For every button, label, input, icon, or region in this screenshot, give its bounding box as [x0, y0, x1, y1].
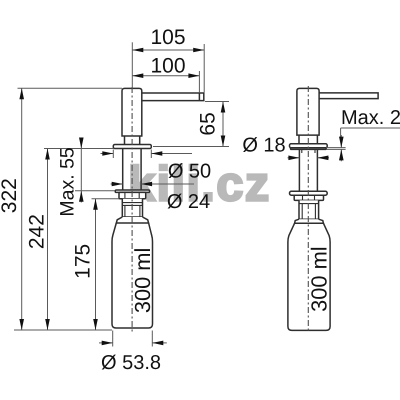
arrow max2 down	[339, 137, 344, 148]
dim dia538 left	[99, 342, 113, 344]
arrow dia538 right	[152, 341, 163, 346]
right washer	[290, 191, 328, 195]
dim max2 up	[340, 149, 342, 161]
right nut facets	[303, 195, 315, 200]
arrow max2 up	[339, 149, 344, 160]
leader max2 top	[341, 128, 400, 137]
svg-text:322: 322	[0, 178, 21, 213]
right centerline	[307, 86, 309, 333]
leader washer top left	[75, 190, 115, 192]
dim line 242	[47, 149, 49, 331]
right bottle	[288, 223, 330, 330]
arrow 105 left	[132, 48, 143, 53]
leader dia24 left	[111, 183, 123, 185]
arrow 175 top	[93, 199, 98, 210]
leader spout bottom	[205, 101, 229, 103]
left adapter	[122, 199, 142, 217]
left cap rim	[116, 217, 148, 223]
arrow 322 bottom	[19, 319, 24, 330]
leader flange bottom left	[44, 148, 113, 150]
svg-text:175: 175	[72, 244, 95, 279]
ext flange corners	[113, 150, 151, 159]
ext dia538	[113, 331, 153, 347]
left washer	[115, 190, 149, 192]
arrow dia18 left	[288, 156, 299, 161]
right shaft inner	[302, 149, 315, 153]
arrow 100 left	[132, 73, 143, 78]
right spout	[319, 93, 378, 99]
right flange	[290, 144, 328, 148]
leader bottle bottom	[14, 329, 112, 331]
arrow 242 top	[45, 149, 50, 160]
svg-text:Max. 2: Max. 2	[341, 107, 400, 129]
arrow dia538 left	[102, 341, 113, 346]
dim max2 down	[340, 135, 342, 148]
svg-text:300 ml: 300 ml	[130, 248, 155, 313]
svg-text:Ø 50: Ø 50	[168, 161, 211, 183]
dim dia538 right	[152, 342, 167, 344]
right head	[297, 88, 319, 135]
svg-text:Ø 18: Ø 18	[242, 135, 285, 157]
arrow 65 bottom	[221, 136, 226, 147]
leader dia50	[101, 153, 114, 155]
svg-text:300 ml: 300 ml	[307, 246, 332, 311]
arrow 105 right	[193, 48, 204, 53]
left neck	[125, 136, 140, 145]
leader dia50 right	[151, 153, 192, 155]
dim line 100	[132, 75, 199, 77]
arrow max55 top	[79, 138, 84, 149]
svg-text:Ø 53.8: Ø 53.8	[101, 352, 161, 374]
dim line max55	[80, 138, 82, 203]
arrow 242 bottom	[45, 319, 50, 330]
svg-text:100: 100	[150, 55, 185, 78]
leader head top left	[18, 87, 123, 89]
dim line 322	[21, 88, 23, 330]
arrow dia24 left	[112, 182, 123, 187]
ext line above left head	[131, 42, 133, 88]
ext line 100 right	[198, 71, 200, 92]
dim line 105	[132, 49, 204, 51]
arrow dia18 right	[317, 156, 328, 161]
leader gasket lines	[326, 148, 345, 150]
left spout joint	[198, 93, 200, 101]
left adapter inner	[122, 203, 142, 217]
left bottle	[112, 223, 153, 328]
right nut	[294, 195, 323, 200]
arrow 100 right	[188, 73, 199, 78]
svg-text:Ø 24: Ø 24	[167, 191, 210, 213]
left head	[122, 88, 142, 136]
arrow dia50 right	[151, 151, 162, 156]
leader dia18 left arrowtail	[288, 157, 300, 159]
left flange	[113, 145, 151, 149]
right gasket	[291, 148, 327, 150]
svg-text:105: 105	[150, 26, 185, 49]
right adapter inner	[299, 204, 319, 220]
dim line 175	[95, 199, 97, 330]
leader dia24 right	[141, 183, 194, 185]
right shaft	[299, 149, 317, 191]
leader nut top left	[92, 198, 120, 200]
left shaft	[123, 149, 141, 191]
arrow dia50 left	[102, 151, 113, 156]
arrow dia24 right	[141, 182, 152, 187]
ext line 105 right	[203, 44, 205, 92]
right cap rim	[295, 219, 324, 223]
arrow 322 top	[19, 88, 24, 99]
right adapter	[299, 200, 319, 219]
left nut	[119, 192, 146, 198]
svg-text:242: 242	[25, 214, 48, 249]
right neck	[299, 135, 317, 144]
dim line 65	[222, 102, 224, 147]
left spout	[142, 93, 204, 101]
left nut facets	[125, 192, 139, 198]
leader dia18 right arrowtail	[317, 157, 329, 159]
arrow 65 top	[221, 102, 226, 113]
svg-text:Max. 55: Max. 55	[57, 147, 79, 217]
arrow max55 bottom	[79, 191, 84, 202]
left centerline	[131, 87, 133, 332]
leader flange right	[153, 146, 229, 148]
svg-text:65: 65	[196, 112, 219, 135]
arrow 175 bottom	[93, 319, 98, 330]
